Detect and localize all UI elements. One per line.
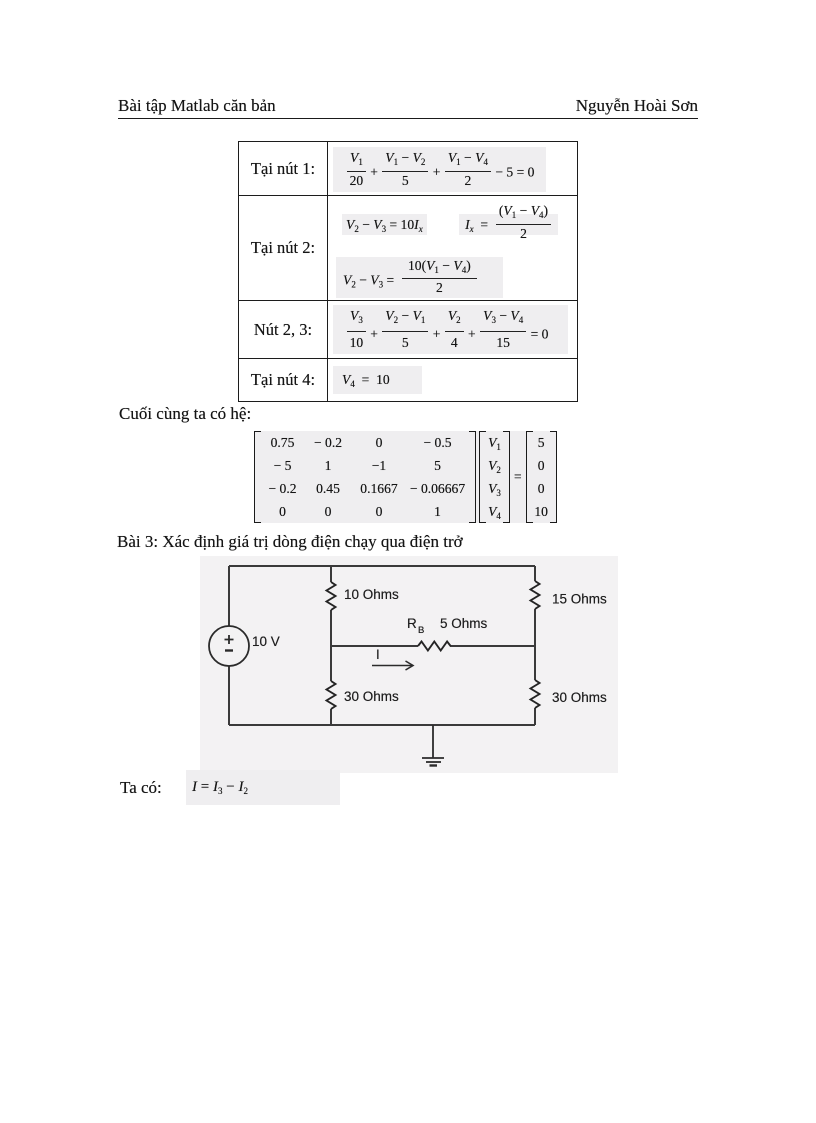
I = I3 - I2 [186,770,340,805]
wire left vertical lower [228,666,230,725]
svg-text:I: I [376,647,380,662]
svg-text:10 Ohms: 10 Ohms [344,587,399,602]
header [118,96,698,119]
matrix equation [254,431,557,523]
wire right branch center [534,609,536,680]
circuit schematic image [200,556,618,778]
wire left vertical upper [228,566,230,626]
resistor RB 5 Ohms [418,642,451,651]
ground [422,725,444,766]
svg-text:B: B [418,625,424,636]
resistor 30 Ohms right [531,680,540,708]
wire middle horizontal left [331,645,418,647]
wire right branch lower [534,708,536,725]
Cuoi cung ta co he [119,404,251,424]
wire bottom horizontal [229,724,535,726]
voltage source 10 V [209,626,249,666]
wire middle branch center [330,610,332,681]
svg-text:R: R [407,616,417,631]
current arrow I [372,661,413,670]
resistor 30 Ohms middle [327,681,336,709]
svg-text:5 Ohms: 5 Ohms [440,616,488,631]
svg-text:30 Ohms: 30 Ohms [344,689,399,704]
svg-text:30 Ohms: 30 Ohms [552,690,607,705]
Ta co [120,778,162,798]
resistor 10 Ohms [327,582,336,610]
wire top horizontal [229,565,535,567]
wire right branch upper [534,566,536,581]
Bai 3 heading [117,532,463,552]
wire middle horizontal right [450,645,535,647]
svg-text:10 V: 10 V [252,634,280,649]
resistor 15 Ohms [531,581,540,609]
equations table [238,141,578,402]
svg-text:15 Ohms: 15 Ohms [552,592,607,607]
wire middle branch upper [330,566,332,582]
wire middle branch lower [330,709,332,725]
